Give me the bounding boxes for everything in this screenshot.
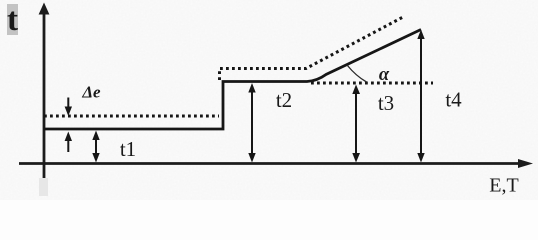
- svg-text:t4: t4: [445, 88, 462, 112]
- x-axis: [19, 159, 533, 168]
- delta-e down arrow: [65, 98, 72, 117]
- dotted curve (offset above solid): [44, 17, 404, 117]
- faint smudge below origin: [39, 178, 48, 196]
- t1 dimension arrow: [92, 131, 99, 163]
- dotted horizontal extension at t2 level: [311, 82, 433, 85]
- svg-text:t1: t1: [120, 137, 136, 161]
- svg-text:α: α: [379, 65, 390, 85]
- t3 dimension arrow: [352, 85, 360, 163]
- y-axis label t (grey box): [7, 2, 18, 38]
- svg-text:t: t: [7, 2, 18, 38]
- y-axis: [39, 3, 50, 179]
- svg-text:E,T: E,T: [489, 175, 518, 197]
- svg-text:Δe: Δe: [81, 83, 101, 102]
- solid curve: [44, 30, 421, 130]
- t2 dimension arrow: [248, 83, 255, 163]
- svg-text:t2: t2: [276, 88, 292, 112]
- svg-text:t3: t3: [378, 91, 394, 115]
- delta-e up arrow: [65, 132, 72, 153]
- angle leader line: [347, 65, 367, 82]
- t4 dimension arrow: [417, 30, 424, 163]
